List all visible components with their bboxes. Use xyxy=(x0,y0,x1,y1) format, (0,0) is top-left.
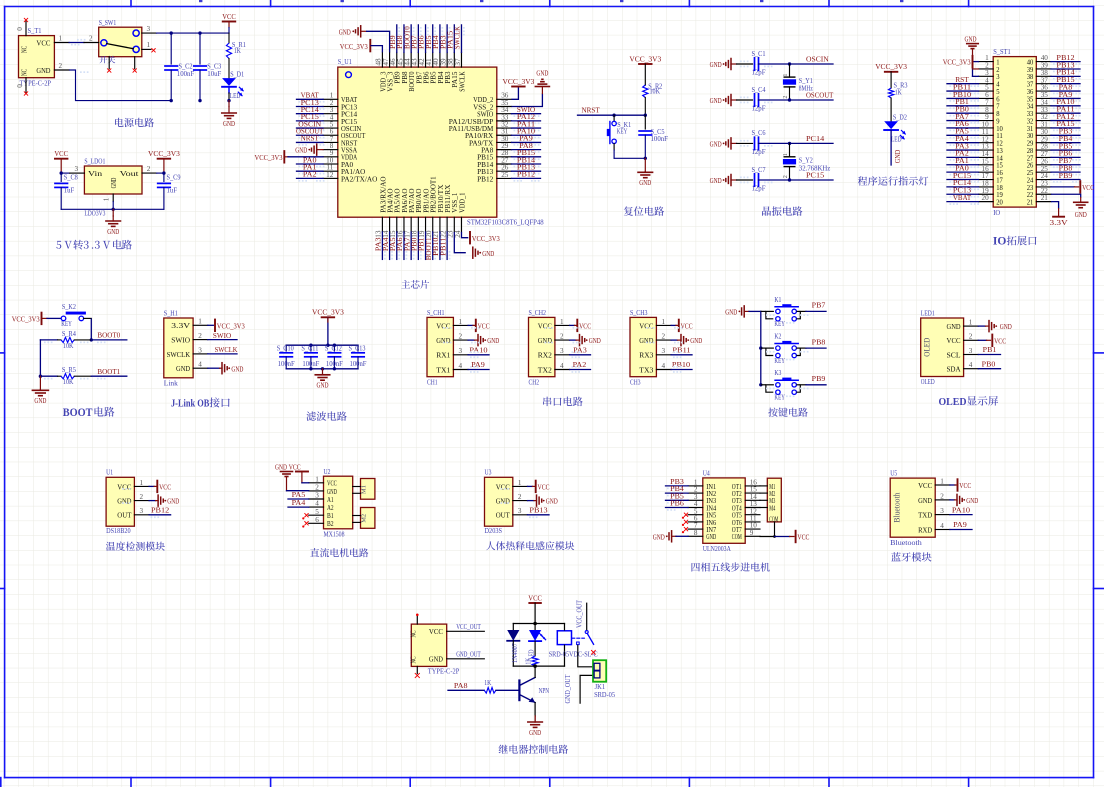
ST1 pin 29 xyxy=(1036,142,1051,144)
GND power to U1 pin 35 xyxy=(512,94,543,107)
svg-text:S_C9: S_C9 xyxy=(167,174,181,182)
svg-text:4: 4 xyxy=(459,362,463,370)
svg-text:VCC: VCC xyxy=(918,481,932,490)
VCC_3V3 power ST1 pin 1 xyxy=(974,61,979,63)
wire net PA9 U5 xyxy=(950,529,972,531)
SW1 pin 3 right xyxy=(142,32,157,34)
wire net OSCOUT xyxy=(297,134,324,136)
wire net PA5 ST1 left xyxy=(947,134,979,136)
wire net PB4 U4 xyxy=(666,492,689,494)
wire net PB10 ST1 left xyxy=(947,97,979,99)
svg-text:1: 1 xyxy=(969,319,973,327)
svg-text:S_D1: S_D1 xyxy=(230,70,244,78)
wire VCC rail xyxy=(157,32,230,34)
VCC power U3 xyxy=(528,485,533,487)
svg-text:3: 3 xyxy=(198,346,202,354)
U1 pin 13 PA3/RX/AO xyxy=(381,217,383,232)
svg-text:CH3: CH3 xyxy=(630,378,641,386)
wire net PB14 right xyxy=(512,163,541,165)
wire net PC13 ST1 left xyxy=(947,193,979,195)
svg-text:S_ST1: S_ST1 xyxy=(993,48,1011,56)
U4 pin5 no-connect xyxy=(684,513,688,517)
svg-text:S_C10: S_C10 xyxy=(277,345,295,352)
svg-text:VCC: VCC xyxy=(327,480,337,488)
svg-text:S_U1: S_U1 xyxy=(338,58,352,66)
svg-text:8: 8 xyxy=(694,529,698,537)
svg-text:SWCLK: SWCLK xyxy=(458,72,466,92)
U1 pin 28 PB15 xyxy=(497,156,512,158)
wire net PB8 ST1 right xyxy=(1051,171,1080,173)
U1 pin 29 PA8 xyxy=(497,149,512,151)
U1 pin 36 VDD_2 xyxy=(497,98,512,100)
svg-text:PB11: PB11 xyxy=(438,237,447,255)
wire net VBAT xyxy=(297,98,324,100)
svg-text:PB7: PB7 xyxy=(812,301,826,310)
svg-text:PA8: PA8 xyxy=(454,681,468,690)
U1 pin 42 PB6 xyxy=(425,52,427,67)
wire net SWIO H1 xyxy=(208,339,237,341)
svg-text:GND: GND xyxy=(429,655,443,664)
svg-text:GND: GND xyxy=(36,66,50,75)
svg-text:M2: M2 xyxy=(361,514,368,523)
svg-text:S_CH3: S_CH3 xyxy=(630,309,648,317)
U1 pin 20 PB2/BOOT1 xyxy=(432,217,434,232)
ST1 pin 19 xyxy=(979,193,994,195)
U2 pin5 no-connect xyxy=(305,513,309,517)
title serial circuit xyxy=(543,397,583,406)
VCC power port xyxy=(223,21,236,23)
GND power H1 pin4 xyxy=(208,367,220,369)
U1 pin 45 PB8 xyxy=(403,52,405,67)
svg-text:VCC: VCC xyxy=(1082,183,1094,192)
svg-text:3: 3 xyxy=(662,347,666,355)
VCC power U1 xyxy=(149,485,154,487)
svg-text:Vin: Vin xyxy=(88,169,102,178)
svg-text:GND: GND xyxy=(436,336,450,345)
wire net PB8 top xyxy=(403,25,405,53)
U1 pin 3 PC14 xyxy=(323,113,338,115)
svg-text:KEY: KEY xyxy=(774,320,785,328)
push button S_K2 KEY xyxy=(61,316,66,321)
svg-text:PB10: PB10 xyxy=(672,360,690,369)
svg-text:B1: B1 xyxy=(327,512,334,520)
svg-text:2: 2 xyxy=(140,493,144,501)
title stepper motor xyxy=(691,562,769,571)
title bluetooth module xyxy=(891,552,931,562)
U1 pin 23 VSS_1 xyxy=(453,217,455,232)
wire net PA12 ST1 right xyxy=(1051,120,1080,122)
svg-text:S_Y2: S_Y2 xyxy=(799,157,813,165)
svg-text:VCC: VCC xyxy=(117,482,131,491)
wire net OSCOUT xyxy=(790,99,834,101)
wire net PA7 bottom xyxy=(410,232,412,260)
wire net PB1 OLED xyxy=(978,354,1000,356)
svg-text:0: 0 xyxy=(16,27,24,31)
svg-text:S_C13: S_C13 xyxy=(349,345,367,352)
wire T1 GND down to rail xyxy=(69,70,171,101)
push button K1 KEY xyxy=(761,310,766,312)
U1 pin 6 OSCOUT xyxy=(323,134,338,136)
wire net PB7 ST1 right xyxy=(1051,164,1080,166)
LDO pin 1 GND bottom xyxy=(112,194,114,202)
svg-text:20: 20 xyxy=(996,199,1003,207)
wire LDO bottom rail xyxy=(61,208,164,210)
ST1 pin 40 xyxy=(1036,61,1051,63)
title key circuit xyxy=(768,408,807,417)
svg-text:100nF: 100nF xyxy=(651,135,669,143)
wire net PB6 top xyxy=(425,25,427,53)
wire net PB9 top xyxy=(396,25,398,53)
U1 pin 32 PA11/USB/DM xyxy=(497,127,512,129)
wire net PA8 xyxy=(448,689,484,691)
svg-text:20: 20 xyxy=(982,194,990,202)
svg-text:PB12: PB12 xyxy=(151,506,169,515)
title main chip xyxy=(401,280,429,289)
ST1 pin 24 xyxy=(1036,179,1051,181)
wire net PA6 bottom xyxy=(403,232,405,260)
wire net PC15 xyxy=(297,120,324,122)
wire VCC to Vin xyxy=(61,172,69,174)
relay T bottom stub no-connect xyxy=(416,666,418,673)
ST1 pin 16 xyxy=(979,171,994,173)
wire net PC13 xyxy=(297,105,324,107)
ST1 pin 11 xyxy=(979,134,994,136)
diode 1N4007 xyxy=(512,624,514,631)
capacitor S_C12 100nF xyxy=(333,345,335,351)
svg-text:SWIO: SWIO xyxy=(213,331,232,340)
svg-text:S_SW1: S_SW1 xyxy=(99,19,117,27)
svg-text:IO: IO xyxy=(993,234,1007,248)
svg-text:1: 1 xyxy=(103,197,111,201)
svg-text:GND: GND xyxy=(706,533,716,541)
GND power ST1 pin 22 xyxy=(1051,194,1081,197)
svg-text:PA10: PA10 xyxy=(952,505,970,514)
wire net OSCIN xyxy=(297,127,324,129)
svg-text:VCC_3V3: VCC_3V3 xyxy=(875,62,907,71)
regulator S_LDO1 xyxy=(84,166,142,194)
ST1 pin 39 xyxy=(1036,68,1051,70)
svg-text:BOOT: BOOT xyxy=(63,407,93,419)
U1 pin 8 ground xyxy=(316,144,318,155)
wire net PB12 xyxy=(149,514,171,516)
motor connector M1 xyxy=(361,479,375,500)
svg-text:OSCIN: OSCIN xyxy=(806,55,829,64)
resistor S_R2 10K xyxy=(644,84,646,86)
svg-text:10uF: 10uF xyxy=(207,70,221,78)
ST1 pin 14 xyxy=(979,156,994,158)
wire emitter to GND xyxy=(534,703,536,716)
svg-text:1: 1 xyxy=(940,477,944,485)
wire net PA4 bottom xyxy=(389,232,391,260)
svg-text:SCL: SCL xyxy=(947,350,961,359)
U1 pin 41 PB5 xyxy=(432,52,434,67)
wire net PB9 ST1 right xyxy=(1051,179,1080,181)
svg-text:VCC: VCC xyxy=(436,321,450,330)
crystal S_Y2 32.768KHz xyxy=(789,143,791,156)
svg-text:VCC: VCC xyxy=(528,593,542,602)
title program running indicator xyxy=(858,176,928,185)
wire net PB12 right xyxy=(512,177,541,179)
U1 pin 25 PB12 xyxy=(497,177,512,179)
U1 pin 11 PA1/AO xyxy=(323,170,338,172)
module U3 body xyxy=(485,477,513,526)
svg-text:SWCLK: SWCLK xyxy=(167,350,191,359)
ST1 pin 31 xyxy=(1036,127,1051,129)
svg-text:GND: GND xyxy=(34,396,46,405)
svg-text:GND: GND xyxy=(639,178,651,187)
wire net OSCIN xyxy=(790,63,834,65)
relay contact blade xyxy=(585,631,588,634)
svg-text:1: 1 xyxy=(782,74,789,77)
svg-text:4: 4 xyxy=(198,361,202,369)
stepper connector body M1-M4 COM xyxy=(767,478,781,522)
title reset circuit xyxy=(624,206,664,215)
wire bottom rail xyxy=(170,99,173,102)
capacitor S_C4 12pF xyxy=(737,99,753,101)
svg-text:LDO3V3: LDO3V3 xyxy=(84,210,105,218)
wire net PB4 ST1 right xyxy=(1051,142,1080,144)
svg-text:GND_OUT: GND_OUT xyxy=(456,651,481,659)
svg-text:GND: GND xyxy=(117,497,131,506)
driver U2 MX1508 body xyxy=(324,476,353,529)
U1 pin 47 VSS_3 xyxy=(389,52,391,67)
svg-text:1: 1 xyxy=(560,318,564,326)
U1 pin 21 PB10/TX xyxy=(439,217,441,232)
wire net PA2 xyxy=(297,177,324,179)
wire net VCC_OUT xyxy=(447,630,485,632)
svg-text:3: 3 xyxy=(140,507,144,515)
ST1 pin 15 xyxy=(979,164,994,166)
wire filter bottom rail xyxy=(286,368,358,370)
svg-text:2: 2 xyxy=(198,332,202,340)
svg-text:PB12: PB12 xyxy=(517,170,535,179)
svg-text:S_K2: S_K2 xyxy=(62,303,76,311)
U1 pin 37 SWCLK xyxy=(460,52,462,67)
svg-text:VCC: VCC xyxy=(538,321,552,330)
VCC_3V3 power port indicator xyxy=(885,71,898,73)
U1 pin 48 VDD_3 xyxy=(381,52,383,67)
svg-text:GND: GND xyxy=(176,364,190,373)
svg-text:SDA: SDA xyxy=(947,365,961,374)
svg-text:M4: M4 xyxy=(769,504,775,512)
svg-text:1K: 1K xyxy=(525,658,532,665)
wire net PA4 xyxy=(288,506,309,508)
svg-text:VCC: VCC xyxy=(994,336,1006,345)
svg-text:S_R4: S_R4 xyxy=(62,330,76,338)
ST1 pin 6 xyxy=(979,97,994,99)
wire throw to JK1 pin1 xyxy=(578,645,594,667)
svg-text:U3: U3 xyxy=(485,469,492,477)
svg-text:2: 2 xyxy=(147,165,151,173)
capacitor S_C1 12pF xyxy=(737,63,753,65)
U1 pin 2 PC13 xyxy=(323,105,338,107)
wire net PB14 ST1 right xyxy=(1051,75,1080,77)
capacitor S_C13 100nF xyxy=(357,345,359,351)
VCC power S_CH3 xyxy=(671,324,676,326)
svg-text:GND: GND xyxy=(536,68,548,77)
ground GND for S_C4 xyxy=(730,95,732,106)
svg-text:2: 2 xyxy=(940,492,944,500)
wire net PA15 top xyxy=(453,25,455,53)
svg-text:SWCLK: SWCLK xyxy=(453,26,462,49)
pin 2 GND xyxy=(54,69,69,71)
relay contact NO xyxy=(577,642,580,645)
header S_H1 J-Link xyxy=(164,318,193,378)
header S_CH2 body xyxy=(529,317,555,376)
svg-text:S_H1: S_H1 xyxy=(164,310,178,318)
wire net SWIO right xyxy=(512,113,541,115)
wire BOOT0 row xyxy=(40,339,57,341)
wire net PB1 bottom xyxy=(425,232,427,260)
svg-text:GND: GND xyxy=(918,496,932,505)
MCU S_U1 STM32F103C8T6 body xyxy=(338,67,497,217)
ST1 pin 10 xyxy=(979,127,994,129)
svg-text:VCC: VCC xyxy=(54,149,68,158)
pin 1 VCC xyxy=(54,42,69,44)
svg-text:S_C1: S_C1 xyxy=(752,50,766,58)
svg-text:VCC_3V3: VCC_3V3 xyxy=(503,77,535,86)
svg-text:VCC_3V3: VCC_3V3 xyxy=(340,42,368,51)
capacitor S_C7 12pF xyxy=(737,179,753,181)
ST1 pin 21 xyxy=(1036,201,1051,203)
svg-text:Bluetooth: Bluetooth xyxy=(890,539,922,547)
svg-text:1: 1 xyxy=(198,318,202,326)
VCC power OLED pin2 xyxy=(978,339,986,341)
wire net BOOT1 xyxy=(91,375,127,377)
VCC power U5 xyxy=(950,484,955,486)
svg-text:B2: B2 xyxy=(327,520,334,528)
svg-text:KEY: KEY xyxy=(617,127,628,135)
U1 pin 18 PB0/AO xyxy=(417,217,419,232)
svg-text:U5: U5 xyxy=(890,470,897,478)
wire net PA9 xyxy=(468,369,489,371)
svg-text:1: 1 xyxy=(662,318,666,326)
svg-text:GND: GND xyxy=(223,119,235,128)
U1 pin 39 PB3 xyxy=(446,52,448,67)
svg-text:RXD: RXD xyxy=(918,525,932,534)
wire NRST net xyxy=(578,114,646,116)
ground GND relay xyxy=(534,716,536,722)
ST1 pin 7 xyxy=(979,105,994,107)
wire reset bottom xyxy=(614,157,645,159)
svg-text:1: 1 xyxy=(518,479,522,487)
svg-text:PB13: PB13 xyxy=(529,506,547,515)
wire net PA11 ST1 right xyxy=(1051,112,1080,114)
svg-text:100nF: 100nF xyxy=(302,361,319,368)
svg-text:S_LDO1: S_LDO1 xyxy=(84,158,105,166)
svg-text:1K: 1K xyxy=(234,47,242,55)
svg-text:PA9: PA9 xyxy=(471,360,485,369)
ST1 pin 5 xyxy=(979,90,994,92)
svg-text:3: 3 xyxy=(75,165,79,173)
U1 pin 15 PA5/AO xyxy=(396,217,398,232)
svg-text:ULN2003A: ULN2003A xyxy=(703,545,732,553)
ST1 pin 34 xyxy=(1036,105,1051,107)
wire net PB11 bottom xyxy=(446,232,448,260)
wire net PB6 ST1 right xyxy=(1051,156,1080,158)
wire net PB6 U4 xyxy=(666,507,689,509)
svg-text:GND: GND xyxy=(107,227,119,236)
wire net PA7 ST1 left xyxy=(947,120,979,122)
svg-text:TYPE-C-2P: TYPE-C-2P xyxy=(428,668,460,676)
U1 pin 9 VDDA xyxy=(323,156,338,158)
wire net PB10 xyxy=(671,369,692,371)
wire net PB5 U4 xyxy=(666,499,689,501)
U1 pin 33 PA12/USB/DP xyxy=(497,120,512,122)
wire net PB13 right xyxy=(512,170,541,172)
svg-text:2: 2 xyxy=(782,175,789,178)
module U1 body xyxy=(106,477,134,526)
wire net PB7 xyxy=(806,310,826,312)
ground GND BOOT xyxy=(39,376,41,389)
ST1 pin 26 xyxy=(1036,164,1051,166)
svg-text:GND: GND xyxy=(496,497,510,506)
ST1 pin 13 xyxy=(979,149,994,151)
wire net PA3 bottom xyxy=(381,232,383,260)
ST1 pin 9 xyxy=(979,120,994,122)
svg-text:GND: GND xyxy=(710,176,722,185)
svg-text:BOOT0: BOOT0 xyxy=(97,331,120,340)
wire net BOOT1 bottom xyxy=(432,232,434,260)
svg-text:2: 2 xyxy=(518,493,522,501)
wire net PB13 xyxy=(528,514,550,516)
relay coil SRD-05VDC-SL-C xyxy=(557,631,571,645)
U1 pin 9 VCC_3V3 power xyxy=(284,156,288,158)
svg-text:VCC_3V3: VCC_3V3 xyxy=(255,153,283,162)
ST1 pin 37 xyxy=(1036,83,1051,85)
svg-text:S_C4: S_C4 xyxy=(752,86,766,94)
wire net PA3 ST1 left xyxy=(947,149,979,151)
svg-text:VCC: VCC xyxy=(429,627,443,636)
svg-text:S_C6: S_C6 xyxy=(752,129,766,137)
U1 pin 26 PB13 xyxy=(497,170,512,172)
wire net PA11 right xyxy=(512,127,541,129)
svg-text:1uF: 1uF xyxy=(64,186,75,194)
U1 pin 1 VBAT xyxy=(323,98,338,100)
svg-text:21: 21 xyxy=(1041,194,1049,202)
svg-text:PA2/TX/AO: PA2/TX/AO xyxy=(341,175,377,183)
svg-text:100nF: 100nF xyxy=(177,70,195,78)
svg-text:GND: GND xyxy=(710,140,722,149)
ST1 pin 30 xyxy=(1036,134,1051,136)
svg-text:VCC: VCC xyxy=(36,39,50,48)
LED S_D1 xyxy=(222,78,236,86)
title 5V to 3.3V xyxy=(56,241,61,249)
wire net PA2 xyxy=(570,369,591,371)
wire net PB3 top xyxy=(446,25,448,53)
svg-text:25: 25 xyxy=(501,171,509,179)
svg-text:4: 4 xyxy=(969,361,973,369)
svg-text:VCC: VCC xyxy=(289,462,301,471)
svg-text:2: 2 xyxy=(59,62,63,70)
wire relay bottom rail xyxy=(513,665,564,667)
wire net PB4 top xyxy=(439,25,441,53)
ST1 pin 23 xyxy=(1036,186,1051,188)
svg-text:4: 4 xyxy=(940,522,944,530)
svg-text:S_C12: S_C12 xyxy=(325,345,343,352)
U1 pin 16 PA6/AO xyxy=(403,217,405,232)
svg-text:21: 21 xyxy=(1027,199,1034,207)
svg-text:GND: GND xyxy=(275,462,287,471)
GND power U5 xyxy=(950,499,955,501)
ST1 pin 25 xyxy=(1036,171,1051,173)
U1 pin 22 PB11/RX xyxy=(446,217,448,232)
svg-text:3: 3 xyxy=(315,492,319,500)
svg-text:OLED: OLED xyxy=(923,338,932,357)
ST1 pin 2 xyxy=(979,68,994,70)
ST1 pin 17 xyxy=(979,179,994,181)
svg-text:SRD-05VDC-SL-C: SRD-05VDC-SL-C xyxy=(549,650,598,658)
